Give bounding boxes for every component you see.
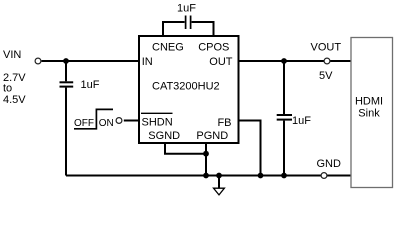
svg-text:1uF: 1uF [81, 79, 100, 91]
svg-text:CPOS: CPOS [198, 42, 229, 54]
svg-text:CAT3200HU2: CAT3200HU2 [152, 81, 220, 93]
svg-text:5V: 5V [319, 70, 333, 82]
svg-text:PGND: PGND [196, 130, 228, 142]
svg-text:SHDN: SHDN [142, 117, 173, 129]
svg-text:CNEG: CNEG [152, 42, 184, 54]
svg-text:IN: IN [142, 56, 153, 68]
svg-text:SGND: SGND [148, 130, 180, 142]
svg-text:FB: FB [217, 117, 231, 129]
svg-text:1uF: 1uF [177, 3, 196, 15]
svg-text:OFF: OFF [74, 118, 94, 129]
svg-text:ON: ON [99, 118, 114, 129]
svg-text:OUT: OUT [209, 56, 233, 68]
svg-text:1uF: 1uF [292, 115, 311, 127]
svg-text:Sink: Sink [358, 108, 380, 120]
svg-text:GND: GND [317, 158, 342, 170]
svg-text:VIN: VIN [3, 49, 21, 61]
svg-text:to: to [3, 83, 12, 95]
svg-text:HDMI: HDMI [355, 96, 383, 108]
svg-text:4.5V: 4.5V [3, 94, 26, 106]
svg-text:VOUT: VOUT [311, 42, 342, 54]
